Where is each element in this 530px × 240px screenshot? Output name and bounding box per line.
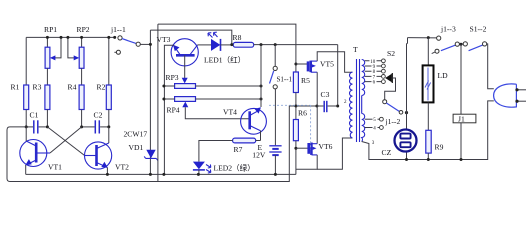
relay J1 (460, 44, 462, 114)
potentiometer RP4 (175, 97, 196, 102)
resistor R5 (293, 72, 298, 93)
resistor R3 (46, 68, 48, 85)
wire jog to LED1 node (150, 30, 231, 44)
LED LED1 (198, 44, 212, 46)
svg-text:R8: R8 (233, 33, 242, 42)
svg-text:RP4: RP4 (167, 106, 180, 115)
wire rail top right (408, 37, 437, 39)
svg-text:VT2: VT2 (115, 163, 129, 172)
svg-text:VT1: VT1 (48, 163, 62, 172)
resistor R4 (81, 68, 83, 85)
wire S2 output path (385, 78, 396, 100)
svg-text:2CW17: 2CW17 (124, 130, 148, 139)
potentiometer RP3 (175, 84, 196, 89)
capacitor C3 (317, 105, 324, 107)
battery E (274, 89, 276, 145)
svg-text:J1: J1 (458, 115, 465, 124)
transistor VT4 (241, 108, 267, 134)
wire top rail left (26, 36, 115, 38)
wire ground rail left (26, 173, 296, 175)
node dots top rail (46, 36, 49, 39)
resistor R8 (233, 42, 254, 47)
wire RP2 wiper (68, 37, 77, 58)
transistor VT3 (171, 39, 198, 66)
resistor R7 (233, 138, 256, 143)
wire LED node drop to C3 right (337, 45, 339, 106)
wire column to VT4 emitter (260, 45, 262, 107)
LED LED2 (193, 162, 205, 170)
wire R1 column (25, 37, 27, 85)
wire tap 3 to bottom rail (362, 142, 407, 160)
svg-text:j1--2: j1--2 (385, 117, 401, 126)
transformer secondary winding (362, 60, 365, 96)
resistor R1 (24, 85, 29, 110)
svg-text:S1--2: S1--2 (470, 25, 487, 34)
svg-text:VT6: VT6 (319, 142, 333, 151)
svg-text:12V: 12V (252, 151, 266, 160)
svg-text:VD1: VD1 (129, 143, 144, 152)
potentiometer RP2 (81, 37, 83, 47)
svg-text:LED2（绿）: LED2（绿） (214, 164, 255, 173)
transistor VT2 (85, 142, 112, 169)
svg-text:R3: R3 (33, 83, 42, 92)
wire bottom rail right (407, 101, 494, 160)
wire top rail right (158, 24, 296, 44)
node C2 left (80, 125, 83, 128)
svg-text:LED1（红）: LED1（红） (204, 55, 245, 65)
wire VT5 drain to primary top (317, 52, 352, 72)
wire VT6 source to ground (296, 155, 317, 169)
node C1 left (25, 125, 28, 128)
wire output column (407, 38, 408, 160)
svg-text:VT4: VT4 (223, 107, 237, 116)
resistor R9 (427, 102, 429, 130)
svg-text:j1--3: j1--3 (440, 25, 456, 34)
secondary taps 10 9 8 7 6 (365, 60, 382, 62)
wire VT3 emitter to left column (164, 45, 174, 174)
capacitor C1 (26, 126, 33, 128)
node C1 right (46, 125, 49, 128)
wire RP4 wiper to VT4 base (185, 107, 248, 119)
socket CZ (395, 130, 417, 152)
plug X (494, 84, 517, 107)
wire riser A from j1-1 (149, 30, 151, 174)
lamp LD (427, 38, 429, 66)
resistor R2 (108, 37, 110, 85)
svg-text:R7: R7 (234, 145, 243, 154)
svg-text:R9: R9 (435, 143, 444, 152)
wire primary bottom return (317, 138, 352, 169)
svg-text:VT5: VT5 (320, 60, 334, 69)
svg-text:S1--1: S1--1 (277, 75, 293, 83)
svg-text:CZ: CZ (382, 148, 392, 157)
svg-text:C3: C3 (321, 90, 330, 99)
svg-text:R5: R5 (301, 76, 310, 85)
switch j1-2 (383, 100, 387, 104)
transformer T primary winding (350, 72, 353, 138)
secondary taps 5 4 (365, 118, 380, 120)
svg-text:R2: R2 (97, 83, 106, 92)
wire R7 to LED2 (199, 141, 233, 162)
svg-text:RP1: RP1 (44, 25, 57, 34)
svg-text:T: T (353, 45, 358, 54)
wire mid node branch to loop (296, 105, 317, 107)
wire S1-2 to plug top (487, 44, 494, 89)
wire cross coupling C1 to VT2 base (47, 127, 84, 156)
transistor VT1 (20, 140, 47, 167)
resistor R6 (293, 120, 298, 141)
svg-text:LD: LD (438, 71, 449, 80)
svg-text:j1--1: j1--1 (110, 25, 126, 34)
svg-text:R1: R1 (11, 83, 20, 92)
wire VT5 source to VT6 drain column (316, 72, 318, 144)
dashed boundary line (269, 105, 311, 149)
svg-text:RP3: RP3 (166, 73, 179, 82)
wire R5-R6 column (295, 45, 297, 72)
wire cross coupling C2 to VT1 base (50, 127, 82, 153)
capacitor C2 (82, 126, 95, 128)
svg-text:R6: R6 (298, 109, 307, 118)
zener diode VD1 (146, 150, 155, 159)
wire feedback loop left (7, 106, 296, 182)
transformer core (356, 59, 358, 142)
svg-text:S2: S2 (387, 49, 395, 58)
svg-text:C2: C2 (94, 110, 103, 119)
svg-text:R4: R4 (68, 83, 77, 92)
wire LED1-R8 node line (254, 44, 338, 46)
MOSFET VT6 (296, 147, 308, 149)
svg-text:RP2: RP2 (77, 25, 90, 34)
MOSFET VT5 (296, 63, 308, 65)
svg-text:C1: C1 (30, 110, 39, 119)
node C2 right (107, 125, 110, 128)
wire RP1 wiper (53, 37, 62, 58)
switch S1-1 (274, 45, 276, 67)
wire riser B (157, 24, 159, 181)
svg-text:VT3: VT3 (157, 35, 171, 44)
potentiometer RP1 (46, 37, 48, 47)
